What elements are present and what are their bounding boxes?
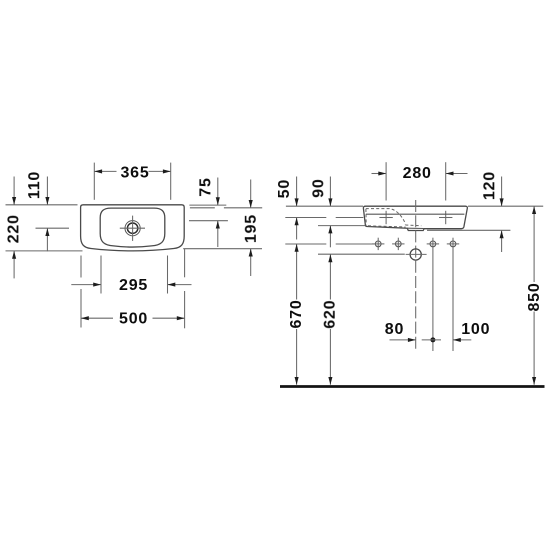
dimension 90 upper arrow (329, 177, 331, 207)
dimension 195 upper arrow (250, 180, 252, 208)
svg-text:80: 80 (385, 321, 404, 338)
dimension 500 right extension line (184, 249, 186, 277)
dimension 620 line (329, 255, 331, 385)
washbasin front profile outline (363, 206, 467, 230)
extension line basin top edge right (189, 204, 226, 206)
washbasin outer outline (81, 205, 185, 251)
dimension 365 right arrow (149, 170, 171, 172)
tap hole outer circle (125, 221, 140, 236)
drain centreline vertical (415, 200, 417, 351)
interior back ledge line (366, 213, 465, 215)
svg-text:75: 75 (197, 177, 214, 196)
hidden bowl bottom dashed (405, 224, 421, 227)
tap hole mark right (439, 217, 452, 219)
drain centreline extension left (318, 253, 405, 255)
extension of rim line to left (286, 205, 363, 207)
dimension 280 right arrow (446, 173, 468, 175)
extension line basin bottom left (6, 250, 83, 252)
dimension 280 left extension line (385, 162, 387, 200)
floor line (280, 385, 545, 388)
dimension 280 right extension line (445, 162, 447, 200)
apron bottom extension left (318, 225, 365, 227)
dimension 670 label (289, 300, 304, 330)
dimension 850 label (526, 282, 541, 312)
dimension 365 left extension line (93, 163, 95, 200)
dimension 850 line (533, 206, 535, 384)
fixing hole 4 extension line down (452, 238, 454, 351)
svg-text:670: 670 (288, 299, 305, 328)
hidden inner wall left dashed (365, 209, 367, 225)
svg-text:850: 850 (526, 282, 543, 311)
dimension 120 upper arrow (501, 177, 503, 207)
svg-text:50: 50 (276, 179, 293, 198)
basin bowl inner outline (100, 208, 165, 247)
dimension 280 left arrow (372, 173, 386, 175)
tap hole mark left (379, 217, 392, 219)
fixing hole 1 (375, 241, 381, 247)
dimension 75 upper arrow (217, 178, 219, 206)
dimension 195 lower arrow (250, 249, 252, 276)
svg-text:620: 620 (322, 300, 339, 329)
dimension 220 lower arrow (13, 251, 15, 278)
dimension 50 upper arrow (296, 177, 298, 207)
dimension 670 line (296, 244, 298, 385)
dimension 295 right arrow (168, 284, 192, 286)
dimension 110 upper arrow (46, 177, 48, 205)
fixing hole 2 (395, 241, 401, 247)
dimension 80/100 shared dot (430, 337, 435, 342)
dimension 500 left arrow (81, 317, 113, 319)
dimension 75 lower arrow (217, 221, 219, 247)
fixing hole 3 (430, 241, 436, 247)
dimension 500 right arrow (153, 317, 185, 319)
dimension 620 label (322, 300, 337, 330)
dimension 120 lower arrow (501, 231, 503, 253)
dimension 90 lower arrow (329, 226, 331, 248)
dimension 500 left extension line (80, 256, 82, 278)
dimension 295 right extension line (167, 256, 169, 294)
drain crosshair horizontal (406, 253, 427, 255)
extension line tap centreline left (36, 227, 70, 229)
hidden bowl lower edge dashed (368, 226, 406, 227)
svg-text:100: 100 (461, 321, 490, 338)
fixing holes centreline extension (285, 243, 326, 245)
svg-text:220: 220 (5, 214, 22, 243)
svg-text:500: 500 (119, 310, 148, 327)
extension line tap hole top right (189, 220, 228, 222)
apron bottom extension right (427, 229, 510, 231)
tap hole crosshair horizontal (120, 227, 145, 229)
dimension 365 left arrow (95, 170, 117, 172)
svg-text:110: 110 (26, 171, 43, 199)
dimension 110 lower arrow (46, 228, 48, 251)
tap centreline extension (285, 217, 326, 219)
tap hole inner circle (127, 223, 137, 233)
fixing hole 4 (450, 241, 456, 247)
extension line basin top edge left (6, 204, 78, 206)
dimension 295 left arrow (71, 284, 101, 286)
dimension 50 lower arrow (296, 218, 298, 240)
dimension 100 arrow (453, 339, 471, 341)
extension line bowl bottom right (183, 248, 262, 250)
tap hole crosshair vertical (132, 216, 134, 241)
basin bottom edge behind drain tab (407, 227, 424, 229)
extension line bowl top edge right (two segments) (190, 207, 215, 209)
dimension 220 upper arrow (13, 177, 15, 205)
fixing hole 3 extension line down (432, 238, 434, 351)
svg-text:280: 280 (403, 165, 432, 182)
svg-text:195: 195 (243, 214, 260, 243)
hidden bowl rim dashed (366, 209, 406, 225)
extension of rim line to right (468, 205, 543, 207)
svg-text:90: 90 (310, 178, 327, 197)
svg-text:295: 295 (119, 277, 148, 294)
svg-text:120: 120 (481, 171, 498, 200)
svg-text:365: 365 (120, 164, 149, 181)
dimension line through dot (422, 339, 441, 341)
dimension 80 arrow (390, 339, 416, 341)
dimension 365 right extension line (170, 163, 172, 200)
dimension 295 left extension line (100, 256, 102, 294)
drain hole circle (410, 249, 421, 260)
